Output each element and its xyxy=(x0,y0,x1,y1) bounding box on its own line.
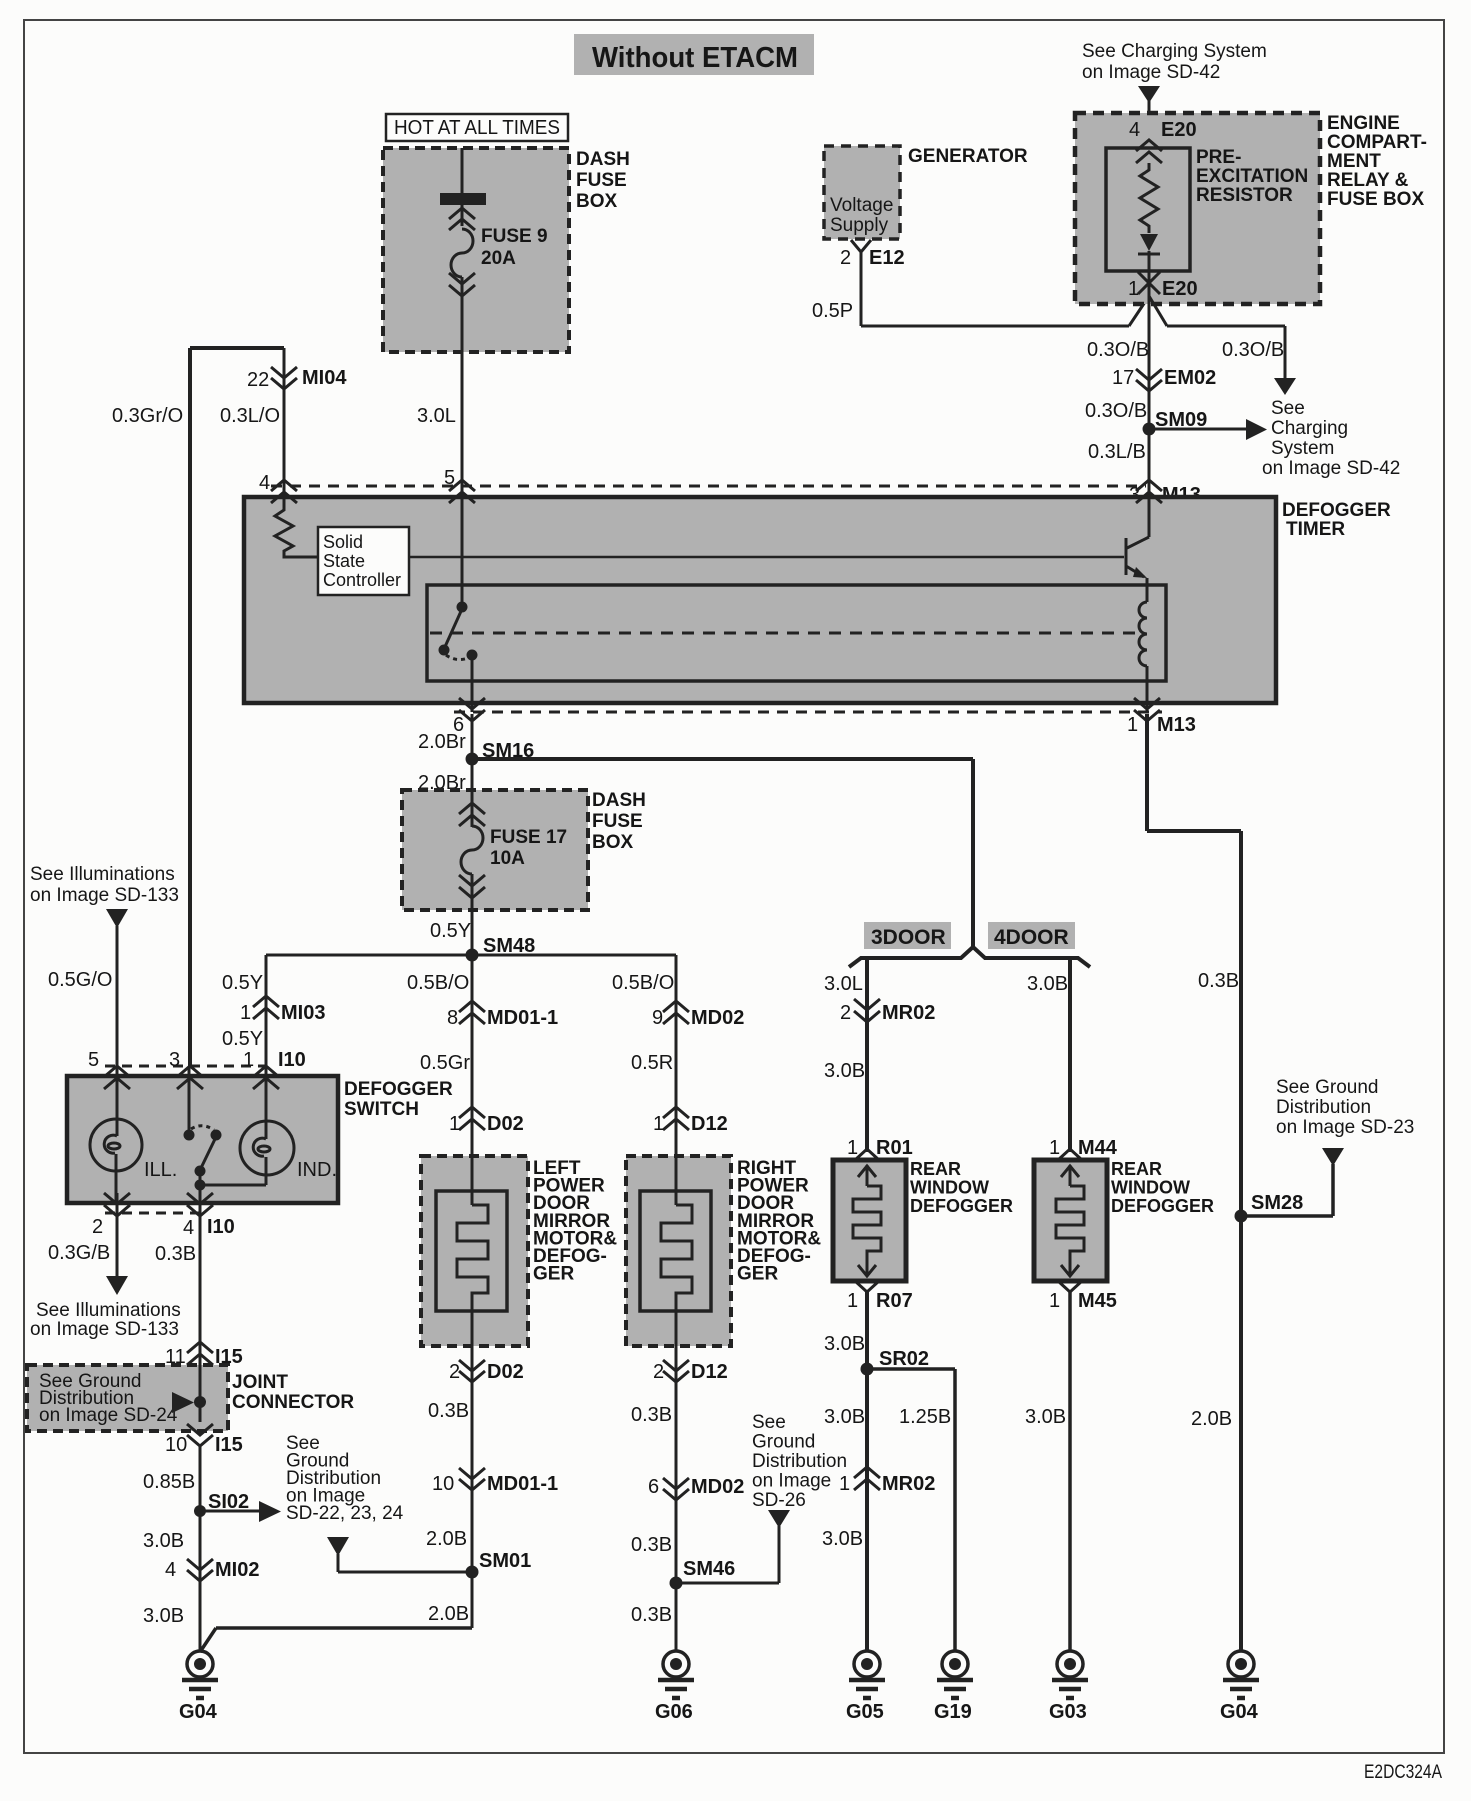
ground G19 xyxy=(937,1651,973,1698)
svg-text:D12: D12 xyxy=(691,1361,728,1383)
diode arrow in resistor box xyxy=(1140,234,1158,251)
fuse 9 contact bar xyxy=(440,193,486,205)
arrow to illuminations bottom xyxy=(106,1276,128,1295)
svg-text:4DOOR: 4DOOR xyxy=(994,926,1069,949)
ground G04 left xyxy=(182,1651,218,1698)
svg-text:on Image SD-42: on Image SD-42 xyxy=(1262,458,1400,479)
svg-text:1: 1 xyxy=(653,1113,664,1135)
svg-text:0.3G/B: 0.3G/B xyxy=(48,1242,110,1264)
relay switch dashed travel arc xyxy=(446,655,471,660)
svg-text:0.5Y: 0.5Y xyxy=(222,972,263,994)
svg-text:0.3B: 0.3B xyxy=(1198,970,1239,992)
pin 1 M13 chevron timer xyxy=(1134,698,1160,721)
box HOT AT ALL TIMES xyxy=(386,114,568,141)
pin 6 chevron timer xyxy=(459,698,485,721)
wire sd-26 arrow to SM46 xyxy=(676,1526,779,1583)
svg-text:3: 3 xyxy=(169,1049,180,1071)
fuse 17 symbol xyxy=(459,803,485,898)
wire resistor to pin 1 E20 xyxy=(1148,251,1151,306)
lamp ILL xyxy=(90,1066,142,1203)
svg-text:M44: M44 xyxy=(1078,1137,1118,1159)
svg-text:0.3B: 0.3B xyxy=(631,1534,672,1556)
svg-text:3.0B: 3.0B xyxy=(143,1605,184,1627)
node SM09 xyxy=(1143,423,1156,436)
wire 0.5P generator to E20 xyxy=(861,252,1149,326)
svg-text:0.5Y: 0.5Y xyxy=(222,1028,263,1050)
svg-text:1: 1 xyxy=(839,1473,850,1495)
svg-text:3.0B: 3.0B xyxy=(824,1333,865,1355)
DEFOGGER TIMER box xyxy=(244,497,1276,703)
connector 17 EM02 xyxy=(1136,369,1162,391)
svg-text:0.5B/O: 0.5B/O xyxy=(407,972,469,994)
svg-text:0.3L/B: 0.3L/B xyxy=(1088,441,1146,463)
pin 1 chevron switch xyxy=(253,1066,279,1089)
svg-text:ILL.: ILL. xyxy=(144,1159,177,1181)
node SM28 xyxy=(1235,1210,1248,1223)
svg-text:MD02: MD02 xyxy=(691,1007,744,1029)
DEFOGGER SWITCH box xyxy=(67,1076,338,1203)
wire 2.0B to ground G04 left xyxy=(200,1628,472,1652)
svg-text:E20: E20 xyxy=(1162,278,1198,300)
svg-text:2: 2 xyxy=(840,1002,851,1024)
svg-text:0.5Y: 0.5Y xyxy=(430,920,471,942)
arrow sd-26 xyxy=(768,1510,790,1528)
svg-text:M45: M45 xyxy=(1078,1290,1117,1312)
connector 2 D12 xyxy=(663,1346,689,1652)
pre-excitation resistor box xyxy=(1106,148,1190,271)
node SM46 xyxy=(670,1577,683,1590)
svg-text:2: 2 xyxy=(449,1361,460,1383)
wire arrow to SM01 xyxy=(338,1554,472,1572)
svg-text:1: 1 xyxy=(847,1137,858,1159)
svg-text:SM46: SM46 xyxy=(683,1558,735,1580)
wire coil to pin 1 M13 xyxy=(1146,666,1149,713)
arrow right to charging system xyxy=(1246,419,1267,440)
relay coil xyxy=(1139,602,1147,666)
wire through joint connector xyxy=(199,1365,202,1422)
svg-text:3DOOR: 3DOOR xyxy=(871,926,946,949)
wire lamp IND to switch output xyxy=(200,1184,266,1187)
svg-text:0.3O/B: 0.3O/B xyxy=(1085,400,1147,422)
svg-text:G19: G19 xyxy=(934,1701,972,1723)
wire emitter to coil xyxy=(1146,578,1149,602)
ground G05 xyxy=(849,1651,885,1698)
pin 3 chevron timer xyxy=(1136,480,1162,503)
connector 6 MD02 xyxy=(663,1478,689,1500)
switch output dot lower xyxy=(195,1180,206,1191)
svg-text:E2DC324A: E2DC324A xyxy=(1364,1762,1442,1783)
svg-text:3.0B: 3.0B xyxy=(824,1406,865,1428)
svg-text:4: 4 xyxy=(259,472,270,494)
arrow SI02 to ground distribution xyxy=(259,1501,281,1522)
svg-text:MD02: MD02 xyxy=(691,1476,744,1498)
switch moving contact dot xyxy=(211,1130,222,1141)
svg-text:I10: I10 xyxy=(207,1216,235,1238)
timer bottom connector dashed line xyxy=(454,711,1162,714)
wire SI02 to arrow xyxy=(200,1510,259,1513)
svg-text:0.85B: 0.85B xyxy=(143,1471,195,1493)
svg-text:0.3L/O: 0.3L/O xyxy=(220,405,280,427)
arrow from illuminations xyxy=(106,909,128,928)
wire 0.5G/O to switch pin 5 xyxy=(116,926,119,1066)
wire controller to transistor base xyxy=(409,556,1124,559)
svg-text:D12: D12 xyxy=(691,1113,728,1135)
wire relay output to pin 6 xyxy=(471,655,474,712)
node SM16 xyxy=(466,753,479,766)
svg-text:E12: E12 xyxy=(869,247,905,269)
wire fuse9 feed vertical xyxy=(461,148,464,226)
switch pin3 wire to contact xyxy=(188,1066,191,1131)
connector 1 D02 xyxy=(459,1107,485,1130)
svg-text:3.0B: 3.0B xyxy=(1027,973,1068,995)
switch output dot upper xyxy=(195,1166,206,1177)
arrow sd-23 xyxy=(1322,1148,1344,1166)
svg-text:0.3O/B: 0.3O/B xyxy=(1087,339,1149,361)
node SI02 xyxy=(194,1505,206,1517)
wire EM02 vertical xyxy=(1148,306,1151,497)
svg-text:I10: I10 xyxy=(278,1049,306,1071)
wire M13 pin1 to SM28 trunk xyxy=(1147,714,1241,1652)
svg-text:LEFTPOWERDOORMIRRORMOTOR&DEFOG: LEFTPOWERDOORMIRRORMOTOR&DEFOG-GER xyxy=(533,1158,617,1285)
wire pin5 inside timer to relay contact xyxy=(461,497,464,607)
wire MD01-1 column from SM48 xyxy=(471,955,474,1156)
JOINT CONNECTOR box xyxy=(27,1365,228,1431)
svg-text:10: 10 xyxy=(165,1434,187,1456)
svg-text:R01: R01 xyxy=(876,1137,913,1159)
dash fuse box upper (FUSE 9) xyxy=(383,148,569,352)
svg-text:G05: G05 xyxy=(846,1701,884,1723)
RIGHT POWER DOOR MIRROR box xyxy=(626,1156,731,1346)
svg-text:2.0B: 2.0B xyxy=(428,1603,469,1625)
transistor emitter arrowhead xyxy=(1133,567,1147,578)
pin 1 M45 xyxy=(1058,1281,1082,1292)
svg-text:2.0Br: 2.0Br xyxy=(418,731,466,753)
wire 0.3Gr/O left vertical to switch pin 3 xyxy=(188,348,192,1066)
svg-text:SM01: SM01 xyxy=(479,1550,531,1572)
pin 2 chevron switch xyxy=(104,1193,130,1216)
svg-text:MI04: MI04 xyxy=(302,367,347,389)
svg-text:1: 1 xyxy=(1127,714,1138,736)
wire pin6 to fuse 17 upper xyxy=(471,714,474,790)
right mirror inner box xyxy=(640,1191,711,1311)
pin X at 1 E20 xyxy=(1138,272,1160,294)
wire MI03 drop xyxy=(265,955,268,1066)
pin 4 chevron timer xyxy=(271,480,297,503)
svg-text:HOT AT ALL TIMES: HOT AT ALL TIMES xyxy=(394,117,560,139)
connector 1 D12 xyxy=(663,1107,689,1130)
svg-text:1: 1 xyxy=(449,1113,460,1135)
wire SM28 branch xyxy=(1241,1164,1333,1216)
svg-text:0.3B: 0.3B xyxy=(155,1243,196,1265)
svg-text:VoltageSupply: VoltageSupply xyxy=(830,195,893,236)
svg-text:MD01-1: MD01-1 xyxy=(487,1007,558,1029)
svg-text:0.5R: 0.5R xyxy=(631,1052,673,1074)
svg-text:1: 1 xyxy=(1049,1137,1060,1159)
svg-text:MD01-1: MD01-1 xyxy=(487,1473,558,1495)
wire fuse17 to SM48 xyxy=(471,874,474,1004)
svg-text:0.3O/B: 0.3O/B xyxy=(1222,339,1284,361)
svg-text:2.0B: 2.0B xyxy=(426,1528,467,1550)
M44 heater grid element xyxy=(1056,1165,1084,1276)
relay switch output dot xyxy=(467,650,478,661)
connector 9 MD02 xyxy=(663,1001,689,1024)
svg-text:2: 2 xyxy=(653,1361,664,1383)
arrow from ground distribution down xyxy=(327,1537,349,1556)
3door 4door split wings xyxy=(849,947,1090,967)
joint connector node dot xyxy=(194,1396,206,1408)
svg-text:R07: R07 xyxy=(876,1290,913,1312)
svg-text:MI03: MI03 xyxy=(281,1002,325,1024)
wire MD02 column xyxy=(675,955,678,1156)
svg-text:EM02: EM02 xyxy=(1164,367,1216,389)
R01 grid arrows xyxy=(858,1166,876,1276)
svg-text:8: 8 xyxy=(447,1007,458,1029)
REAR WINDOW DEFOGGER box M44 xyxy=(1034,1149,1107,1281)
pin 3 chevron switch xyxy=(177,1066,203,1089)
svg-text:10: 10 xyxy=(432,1473,454,1495)
svg-text:1: 1 xyxy=(1128,278,1139,300)
svg-text:3.0L: 3.0L xyxy=(417,405,456,427)
svg-text:22: 22 xyxy=(247,369,269,391)
wire SM09 to charging arrow xyxy=(1149,428,1246,431)
svg-text:0.5Gr: 0.5Gr xyxy=(420,1052,470,1074)
svg-text:SR02: SR02 xyxy=(879,1348,929,1370)
svg-text:G06: G06 xyxy=(655,1701,693,1723)
connector 10 MD01-1 xyxy=(459,1468,485,1490)
svg-text:RIGHTPOWERDOORMIRRORMOTOR&DEFO: RIGHTPOWERDOORMIRRORMOTOR&DEFOG-GER xyxy=(737,1158,821,1285)
left mirror inner box xyxy=(436,1191,507,1311)
fuse 9 symbol xyxy=(449,208,475,296)
svg-text:1: 1 xyxy=(1049,1290,1060,1312)
MAIN xyxy=(190,348,284,1066)
wire SM16 trunk to 3door/4door xyxy=(472,759,973,947)
switch contact dot left xyxy=(184,1130,195,1141)
svg-text:3.0B: 3.0B xyxy=(143,1530,184,1552)
svg-text:Without ETACM: Without ETACM xyxy=(592,42,798,74)
switch top dashed line xyxy=(105,1065,266,1068)
wire 0.3L/O MI04 down to timer pin 4 xyxy=(283,348,286,497)
LEFT POWER DOOR MIRROR box xyxy=(421,1156,528,1346)
wire M45 to G03 xyxy=(1068,1292,1072,1652)
svg-text:9: 9 xyxy=(652,1007,663,1029)
svg-text:IND.: IND. xyxy=(297,1159,337,1181)
svg-text:I15: I15 xyxy=(215,1434,243,1456)
label 3DOOR xyxy=(864,922,951,949)
resistor inside timer at pin4 xyxy=(275,497,318,557)
REAR WINDOW DEFOGGER box R01 xyxy=(833,1149,906,1281)
wire split below E20 pin1 xyxy=(1149,296,1285,378)
wire switch output to pin 4 xyxy=(199,1171,202,1213)
node SR02 xyxy=(861,1363,874,1376)
svg-text:M13: M13 xyxy=(1157,714,1196,736)
connector 11 I15 xyxy=(187,1342,213,1365)
joint connector arrow xyxy=(172,1392,194,1413)
title Without ETACM xyxy=(574,34,814,75)
right mirror defogger grid element xyxy=(661,1156,692,1346)
svg-text:E20: E20 xyxy=(1161,119,1197,141)
transistor Q1 xyxy=(1126,497,1149,577)
dash fuse box lower (FUSE 17) xyxy=(402,790,588,910)
connector 8 MD01-1 xyxy=(459,1001,485,1024)
svg-text:MI02: MI02 xyxy=(215,1559,259,1581)
generator pin 2 E12 xyxy=(851,240,871,252)
connector 4 MI02 xyxy=(187,1559,213,1581)
svg-text:0.3B: 0.3B xyxy=(631,1404,672,1426)
svg-text:0.5G/O: 0.5G/O xyxy=(48,969,112,991)
resistor zigzag pre-excitation xyxy=(1140,163,1158,233)
connector 10 I15 xyxy=(187,1424,213,1446)
svg-text:4: 4 xyxy=(1129,119,1140,141)
svg-text:1: 1 xyxy=(240,1002,251,1024)
svg-text:0.5B/O: 0.5B/O xyxy=(612,972,674,994)
pin 4 chevron switch xyxy=(187,1193,213,1216)
svg-text:MR02: MR02 xyxy=(882,1473,935,1495)
svg-text:D02: D02 xyxy=(487,1361,524,1383)
svg-text:G04: G04 xyxy=(179,1701,218,1723)
GENERATOR box xyxy=(824,146,900,239)
wire 3door drop 3.0L xyxy=(865,958,869,1152)
wire pin2 down to arrow xyxy=(116,1193,119,1276)
svg-text:See Illuminationson Image SD-1: See Illuminationson Image SD-133 xyxy=(30,1300,181,1340)
svg-text:5: 5 xyxy=(444,467,455,489)
arrow to charging system right branch xyxy=(1274,378,1296,395)
svg-text:0.5P: 0.5P xyxy=(812,300,853,322)
wire 4door drop 3.0B xyxy=(1068,958,1072,1152)
relay linkage dashed line xyxy=(430,632,1138,635)
svg-text:2: 2 xyxy=(92,1216,103,1238)
svg-text:3.0L: 3.0L xyxy=(824,973,863,995)
ground G06 xyxy=(658,1651,694,1698)
ENGINE COMPARTMENT RELAY & FUSE BOX xyxy=(1075,113,1320,304)
svg-text:1: 1 xyxy=(847,1290,858,1312)
solid state controller box xyxy=(318,527,409,595)
svg-text:D02: D02 xyxy=(487,1113,524,1135)
wire pin4 to I15 xyxy=(199,1203,202,1365)
lamp IND xyxy=(240,1066,294,1185)
svg-text:See Charging System: See Charging System xyxy=(1082,41,1267,62)
relay switch pivot dot xyxy=(439,645,450,656)
svg-text:3.0B: 3.0B xyxy=(822,1528,863,1550)
relay inner box xyxy=(427,585,1166,681)
pin 5 chevron timer xyxy=(449,480,475,503)
R01 heater grid element xyxy=(853,1165,881,1276)
svg-text:0.3Gr/O: 0.3Gr/O xyxy=(112,405,183,427)
wire R07 to SR02 xyxy=(865,1292,869,1652)
wire SR02 branch to G19 xyxy=(867,1369,955,1652)
left mirror defogger grid element xyxy=(457,1156,488,1346)
svg-text:SM28: SM28 xyxy=(1251,1192,1303,1214)
svg-text:1.25B: 1.25B xyxy=(899,1406,951,1428)
see charging system top arrow xyxy=(1138,86,1160,148)
ground G03 xyxy=(1052,1651,1088,1698)
wire into fuse 17 xyxy=(471,790,474,827)
svg-text:17: 17 xyxy=(1112,367,1134,389)
wire fuse9 output to timer area xyxy=(461,277,464,497)
svg-text:G03: G03 xyxy=(1049,1701,1087,1723)
svg-text:6: 6 xyxy=(648,1476,659,1498)
svg-text:1: 1 xyxy=(243,1049,254,1071)
connector 2 MR02 xyxy=(854,999,880,1022)
connector 1 MI03 xyxy=(253,996,279,1019)
svg-text:GENERATOR: GENERATOR xyxy=(908,146,1028,167)
svg-text:5: 5 xyxy=(88,1049,99,1071)
wire horizontal joining 0.3Gr/O and 0.3L/O xyxy=(190,346,284,350)
relay switch arm xyxy=(444,609,462,649)
connector 1 MR02 bottom xyxy=(854,1467,880,1490)
switch arm xyxy=(201,1137,216,1168)
wire SM48 horizontal xyxy=(266,954,676,957)
svg-text:G04: G04 xyxy=(1220,1701,1259,1723)
svg-text:MR02: MR02 xyxy=(882,1002,935,1024)
node SM01 xyxy=(466,1566,479,1579)
svg-text:See Illuminationson Image SD-1: See Illuminationson Image SD-133 xyxy=(30,864,179,906)
svg-text:4: 4 xyxy=(183,1217,194,1239)
svg-text:0.3B: 0.3B xyxy=(631,1604,672,1626)
svg-text:4: 4 xyxy=(165,1559,176,1581)
pin 1 R07 xyxy=(855,1281,879,1292)
connector 22 MI04 xyxy=(271,367,297,389)
svg-text:0.3B: 0.3B xyxy=(428,1400,469,1422)
ground G04 right xyxy=(1223,1651,1259,1698)
relay switch contact dot top xyxy=(457,602,468,613)
label 4DOOR xyxy=(988,922,1075,949)
node SM48 xyxy=(466,949,479,962)
switch dashed travel arc xyxy=(191,1126,214,1130)
connector 2 D02 xyxy=(459,1346,485,1628)
svg-text:3.0B: 3.0B xyxy=(1025,1406,1066,1428)
timer top connector dashed line xyxy=(271,485,1146,488)
pin 5 chevron switch xyxy=(104,1066,130,1089)
pin chevron at resistor box top xyxy=(1136,140,1162,163)
svg-text:3.0B: 3.0B xyxy=(824,1060,865,1082)
svg-text:2.0B: 2.0B xyxy=(1191,1408,1232,1430)
switch bottom dashed line xyxy=(105,1212,202,1215)
svg-text:2: 2 xyxy=(840,247,851,269)
svg-text:on Image SD-42: on Image SD-42 xyxy=(1082,62,1220,83)
